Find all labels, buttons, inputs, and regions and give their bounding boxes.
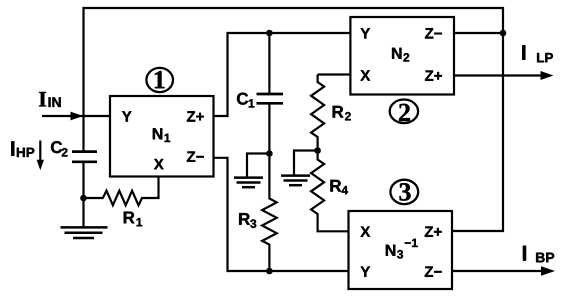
label I_BP: [523, 246, 554, 262]
block N2: [350, 17, 454, 95]
capacitor C1: [257, 33, 284, 154]
block N1: [110, 96, 214, 177]
ground symbol on C1/R3 node: [234, 154, 269, 188]
ground symbol below C2 node: [61, 198, 108, 238]
pin label Y of N3: [361, 266, 371, 276]
pin label Y of N1: [122, 111, 132, 121]
digit 3 in circle: [399, 183, 410, 200]
junction node C2 / R1 / ground: [80, 195, 87, 202]
pin label X of N2: [360, 70, 370, 80]
wire N1 Z+ output up and over to N2 Y input: [214, 33, 351, 116]
label N3 inverse: [386, 239, 418, 259]
pin label Y of N2: [361, 28, 371, 38]
pin label X of N3: [360, 226, 370, 236]
junction node C1 / R3 / ground: [266, 150, 273, 157]
label R2: [333, 106, 351, 120]
junction node N1 Z+ / C1 tap: [266, 30, 273, 37]
pin label Z- of N3: [425, 266, 442, 276]
label C2: [51, 141, 67, 156]
pin label Z+ of N1: [187, 111, 204, 121]
label R3: [239, 213, 256, 228]
label C1: [237, 93, 254, 108]
arrowhead I_IN: [71, 112, 84, 121]
resistor R2: [311, 75, 324, 151]
wire/arrow shaft output I_BP from N3 Z-: [452, 270, 542, 272]
wire N2 X input lead to R2: [318, 73, 351, 75]
circle of number 2: [390, 100, 418, 124]
resistor R1: [84, 176, 159, 205]
junction node R2 / R4 / ground: [314, 147, 321, 154]
label I_LP: [522, 45, 553, 62]
circle of number 3: [390, 180, 418, 204]
wire I_IN input to node and N1 Y input: [42, 115, 110, 117]
ground symbol on R2/R4 node: [281, 151, 318, 186]
wire N1 Z- output down and along bottom rail to N3 Y input: [214, 158, 349, 271]
wire N2 Z- output to feedback rail: [454, 32, 503, 34]
label R4: [330, 180, 348, 194]
label I_HP: [11, 141, 34, 157]
digit 1 in circle: [155, 71, 165, 88]
label R1: [124, 212, 142, 227]
circle of number 1: [146, 68, 173, 92]
digit 2 in circle: [399, 104, 410, 121]
label N2: [392, 48, 409, 62]
junction node bottom rail / R3: [266, 268, 273, 275]
pin label Z+ of N2: [425, 70, 442, 80]
junction node N2 Z- / feedback rail: [500, 30, 507, 37]
capacitor C2: [72, 115, 97, 198]
resistor R4: [311, 151, 348, 232]
wire outer feedback loop: top rail, left drop to input node, right drop to N3 Z+: [84, 8, 504, 231]
pin label Z+ of N3: [425, 226, 442, 236]
pin label Z- of N1: [187, 151, 204, 161]
label I_IN: [39, 92, 61, 107]
resistor R3: [262, 154, 277, 272]
arrowhead I_HP: [37, 160, 44, 171]
block N3: [349, 211, 453, 289]
label N1: [153, 128, 170, 142]
arrow shaft I_HP current direction: [39, 141, 41, 162]
pin label X of N1: [154, 159, 164, 169]
wire/arrow shaft output I_LP from N2 Z+: [454, 74, 542, 76]
arrowhead I_LP: [541, 71, 554, 80]
pin label Z- of N2: [425, 28, 442, 38]
arrowhead I_BP: [541, 266, 555, 275]
